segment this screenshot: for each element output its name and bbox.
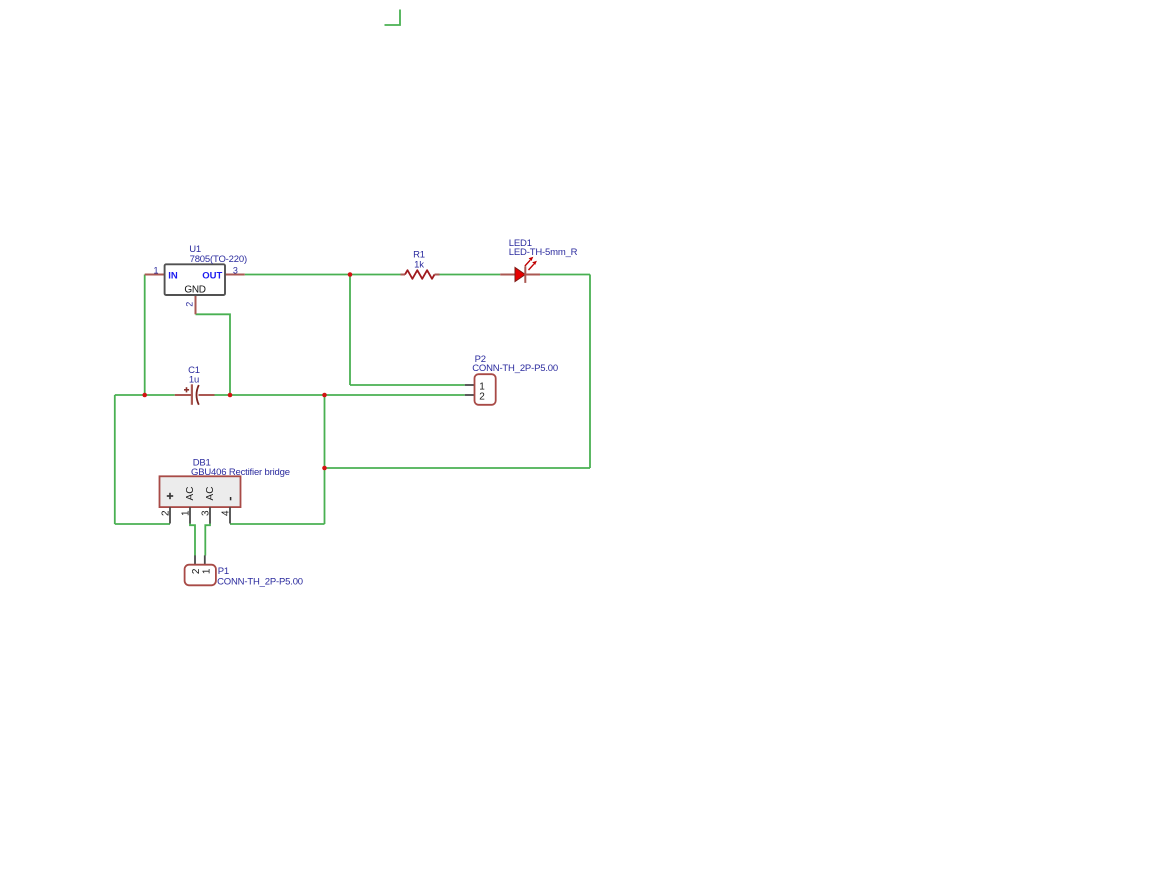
DB1 pin name - [230, 497, 232, 500]
junction (node 324,395) [322, 393, 327, 398]
wire (U1 pin3 to R1) [245, 274, 401, 276]
wire (DB1 pin4 to right) [230, 523, 325, 525]
DB1 pin 1 stub [189, 507, 191, 524]
wire (R1 to LED1) [440, 274, 501, 276]
svg-text:P1: P1 [218, 566, 229, 577]
svg-text:CONN-TH_2P-P5.00: CONN-TH_2P-P5.00 [472, 363, 558, 374]
U1 pin 2 stub [195, 295, 197, 314]
wire (DB1 pin1 to P1 pin2) [190, 524, 195, 556]
wire (to P2 pin 2) [325, 394, 465, 396]
junction (C1 right node) [228, 393, 233, 398]
P1 body [185, 565, 216, 586]
junction (node 324,468) [322, 466, 327, 471]
regulator U1 [145, 244, 247, 314]
DB1 pin 2 stub [169, 507, 171, 524]
rectifier bridge DB1 [160, 457, 290, 523]
svg-text:AC: AC [185, 487, 196, 501]
DB1 body [160, 476, 241, 507]
wire (vertical 324 from C1 row to bottom row) [324, 395, 326, 524]
wire (dangling corner stub top) [385, 10, 401, 26]
wire (LED1 to right corner) [540, 274, 590, 276]
svg-text:2: 2 [185, 302, 195, 307]
junction (R1 branch node) [348, 272, 353, 277]
C1 positive plate [191, 384, 193, 405]
connector P2 [465, 354, 558, 405]
LED1 cathode stub [525, 274, 540, 276]
svg-text:1: 1 [181, 510, 192, 516]
P2 body [475, 374, 496, 405]
LED LED1 [500, 238, 577, 283]
DB1 pin 4 stub [229, 507, 231, 524]
U1 pin 1 stub [145, 274, 165, 276]
svg-text:1k: 1k [414, 259, 424, 270]
svg-text:1: 1 [201, 568, 212, 574]
wire (U1 pin1 down to C1 row) [144, 275, 146, 396]
svg-text:IN: IN [168, 270, 178, 281]
wire (bottom left to DB1 pin2) [115, 523, 170, 525]
U1 body [165, 264, 225, 295]
capacitor C1 [175, 365, 215, 405]
svg-text:3: 3 [233, 266, 238, 276]
LED1 anode stub [500, 274, 515, 276]
svg-text:CONN-TH_2P-P5.00: CONN-TH_2P-P5.00 [217, 577, 303, 588]
LED1 triangle [515, 267, 525, 281]
DB1 pin name + [167, 493, 173, 499]
resistor R1 [401, 250, 440, 279]
wire (horizontal into node at 324,468) [325, 467, 591, 469]
wire (DB1 pin3 to P1 pin1) [205, 524, 210, 556]
svg-text:1: 1 [153, 266, 158, 276]
svg-text:2: 2 [161, 510, 172, 516]
svg-text:AC: AC [205, 487, 216, 501]
LED1 emission arrow 2 [529, 261, 537, 270]
P2 pin 2 stub [465, 394, 475, 396]
R1 zigzag [405, 270, 435, 279]
wire (U1 pin2 jog to 230) [196, 314, 231, 395]
svg-text:7805(TO-220): 7805(TO-220) [190, 254, 247, 265]
C1 plus sign [184, 387, 189, 392]
P1 pin 2 stub [194, 555, 196, 564]
wire (left vertical down) [114, 395, 116, 524]
P1 pin 1 stub [204, 555, 206, 564]
svg-text:3: 3 [201, 510, 212, 516]
C1 left stub [175, 394, 192, 396]
R1 right stub [435, 274, 440, 276]
LED1 cathode bar [524, 266, 526, 283]
U1 pin 3 stub [225, 274, 245, 276]
svg-text:GBU406 Rectifier bridge: GBU406 Rectifier bridge [191, 467, 290, 478]
junction (C1 left node) [142, 393, 147, 398]
svg-text:OUT: OUT [202, 270, 222, 281]
C1 right stub [199, 394, 215, 396]
svg-text:2: 2 [479, 392, 485, 403]
svg-text:4: 4 [221, 510, 232, 516]
svg-text:GND: GND [184, 285, 205, 296]
R1 left stub [401, 274, 406, 276]
C1 curved plate [197, 385, 199, 405]
DB1 pin 3 stub [209, 507, 211, 524]
wire (C1 row right) [215, 394, 325, 396]
wire (right vertical) [589, 275, 591, 469]
svg-text:LED-TH-5mm_R: LED-TH-5mm_R [509, 247, 578, 258]
wire (C1 row left) [115, 394, 175, 396]
wire (branch down from R1 node) [349, 275, 351, 386]
svg-text:1u: 1u [189, 375, 199, 386]
P2 pin 1 stub [465, 384, 475, 386]
connector P1 [185, 555, 303, 587]
LED1 emission arrow 1 [525, 257, 533, 266]
wire (to P2 pin 1) [350, 384, 465, 386]
